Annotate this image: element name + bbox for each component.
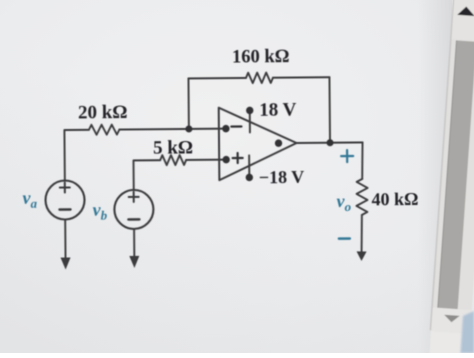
shadow left of scrollbar [418, 0, 452, 353]
vo minus sign [339, 237, 350, 239]
node: feedback junction on inverting wire [185, 125, 192, 132]
svg-text:5 kΩ: 5 kΩ [153, 137, 193, 158]
scrollbar left border [430, 0, 454, 330]
svg-text:−18 V: −18 V [259, 167, 305, 187]
op-amp inverting minus sign [231, 125, 241, 127]
va minus sign [60, 208, 71, 210]
wire: load ground lead [361, 215, 363, 252]
resistor 40 kOhm (load) [356, 179, 367, 215]
vb ground arrowhead [129, 256, 139, 268]
wire: feedback right vertical [328, 77, 331, 142]
wire: feedback left vertical [187, 78, 189, 128]
load ground arrowhead [356, 251, 366, 261]
source vb circle [114, 190, 153, 229]
wire: inverting run right [119, 128, 225, 131]
op-amp negative supply pin lead [248, 155, 250, 177]
scrollbar up arrow [457, 6, 474, 16]
wire: output run [297, 141, 363, 144]
svg-text:160 kΩ: 160 kΩ [232, 47, 290, 68]
op-amp noninverting plus sign [233, 153, 243, 163]
scrollbar thumb [437, 40, 474, 309]
op-amp noninverting input terminal dot [222, 156, 229, 163]
svg-text:18 V: 18 V [259, 100, 297, 121]
wire: feedback top run (left half) [188, 77, 245, 80]
op-amp positive supply pin lead [249, 110, 251, 132]
resistor 5 kOhm [160, 155, 186, 165]
scrollbar down arrow [444, 315, 460, 323]
node: output/feedback junction [326, 139, 333, 146]
wire: noninverting run right [186, 159, 226, 161]
scrollbar (slanted, photo perspective) [428, 0, 474, 358]
vb plus sign [129, 192, 139, 202]
vb minus sign [128, 218, 139, 220]
vo plus sign [341, 150, 353, 162]
va plus sign [60, 182, 70, 192]
op-amp inverting input terminal dot [222, 125, 229, 132]
op-amp U1 triangle [219, 107, 297, 180]
wire: feedback top run (right half) [273, 76, 329, 78]
svg-text:20 kΩ: 20 kΩ [78, 102, 128, 123]
wire: va ground lead [64, 220, 66, 258]
op-amp output terminal dot [275, 139, 282, 146]
wire: load branch down [361, 142, 363, 178]
wire: vb ground lead [133, 229, 135, 256]
scrollbar up button [452, 0, 474, 42]
source va circle [45, 180, 84, 219]
scrollbar track [430, 0, 474, 333]
scrollbar down button [431, 307, 472, 334]
wire: va riser and inverting run left [64, 130, 89, 181]
resistor 160 kOhm (feedback) [246, 73, 273, 84]
resistor 20 kOhm [89, 125, 120, 135]
scrollbar bottom end [429, 331, 470, 358]
op-amp positive supply pin dot [246, 107, 253, 114]
op-amp negative supply pin dot [246, 174, 253, 181]
scrollbar thumb left edge [438, 40, 457, 307]
wire: vb riser and noninverting run left [133, 160, 160, 190]
va ground arrowhead [61, 257, 71, 269]
svg-text:40 kΩ: 40 kΩ [371, 189, 418, 209]
bottom-right blue patch [461, 311, 474, 353]
